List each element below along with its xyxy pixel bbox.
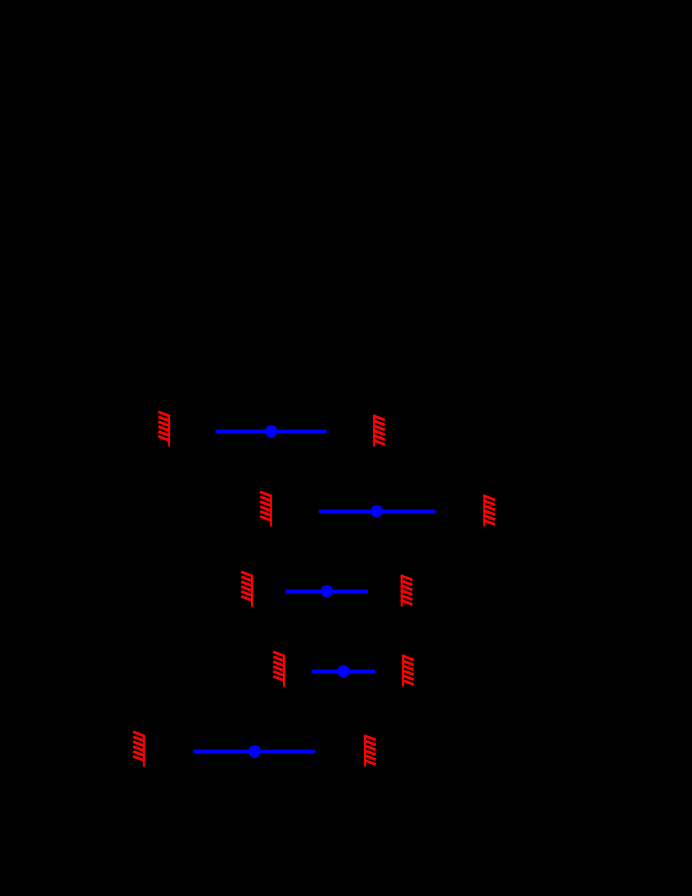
wall support C right <box>401 575 413 607</box>
wall support B right <box>483 495 495 527</box>
wall support D right <box>402 655 414 687</box>
wall support A right <box>373 415 385 447</box>
wall support B left <box>260 492 272 527</box>
rod A <box>216 430 327 433</box>
wall support E right <box>364 735 376 767</box>
wall support C left <box>241 572 253 607</box>
rod D <box>312 670 375 673</box>
pivot D <box>337 665 349 677</box>
pivot E <box>248 745 260 757</box>
wall support A left <box>158 412 170 447</box>
wall support D left <box>273 652 285 687</box>
rod B <box>319 510 435 513</box>
wall support E left <box>133 732 145 767</box>
pivot C <box>321 585 333 597</box>
pivot A <box>265 425 277 437</box>
rod C <box>286 590 368 593</box>
rod E <box>194 750 316 753</box>
pivot B <box>371 505 383 517</box>
